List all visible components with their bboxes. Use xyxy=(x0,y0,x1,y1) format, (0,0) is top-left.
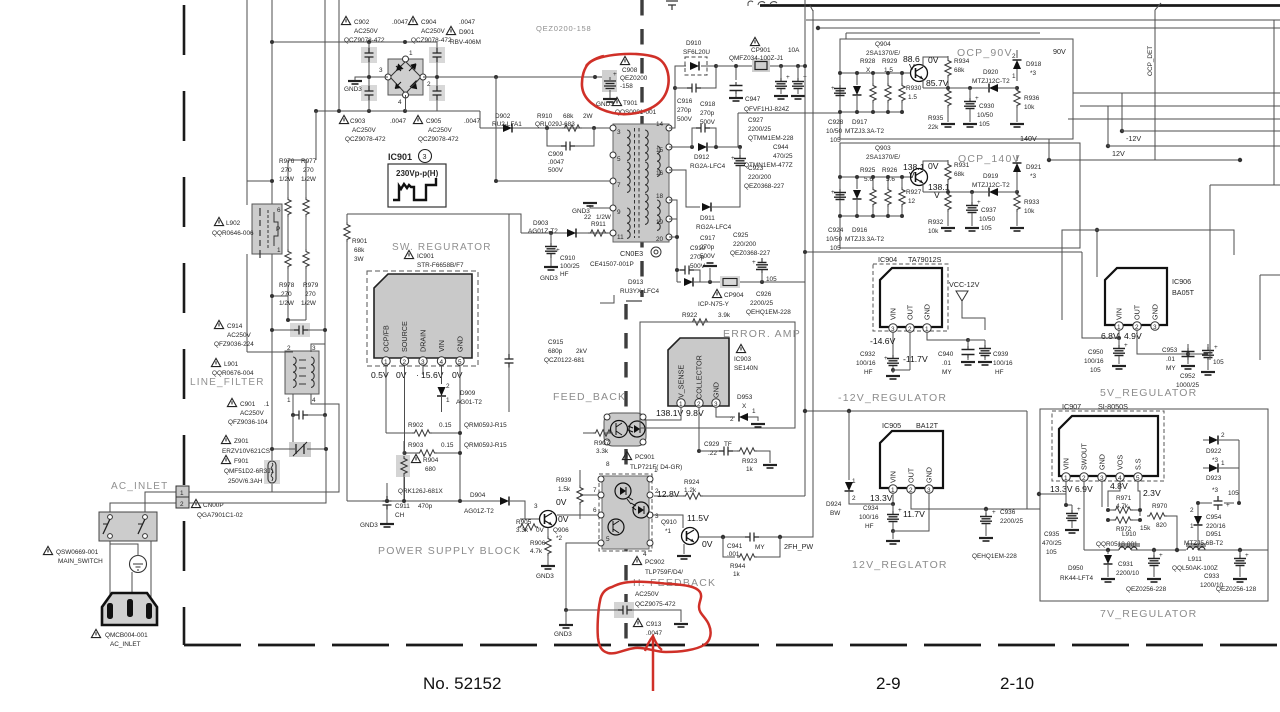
svg-text:C926: C926 xyxy=(756,291,772,298)
svg-text:R927: R927 xyxy=(906,189,922,196)
resistor R970 xyxy=(1140,503,1177,550)
capacitor C940 xyxy=(927,332,975,376)
svg-text:.01: .01 xyxy=(942,360,951,367)
wire pin4 VOS xyxy=(1108,481,1120,507)
svg-text:TA79012S: TA79012S xyxy=(908,255,942,264)
svg-text:14: 14 xyxy=(656,121,664,128)
transistor Q910 xyxy=(652,513,713,549)
diode D909 xyxy=(437,383,482,412)
svg-text:500V: 500V xyxy=(548,167,564,174)
label CN00P QGA7901C1-02 xyxy=(191,499,243,519)
svg-text:820: 820 xyxy=(1156,522,1167,529)
capacitor C925 xyxy=(730,189,771,257)
svg-text:MAIN_SWITCH: MAIN_SWITCH xyxy=(58,558,103,565)
svg-text:SF6L20U: SF6L20U xyxy=(683,49,710,56)
svg-text:R976: R976 xyxy=(279,158,295,165)
svg-text:470/25: 470/25 xyxy=(773,153,793,160)
svg-text:VCC-12V: VCC-12V xyxy=(949,280,980,289)
svg-text:470/25: 470/25 xyxy=(1042,540,1062,547)
resistor R905 xyxy=(516,519,538,534)
diode D950 xyxy=(1060,550,1115,582)
diode D918 xyxy=(1012,50,1042,81)
svg-text:2-9: 2-9 xyxy=(876,674,901,693)
photocoupler PC902 xyxy=(593,461,659,558)
svg-text:D951: D951 xyxy=(1206,531,1222,538)
svg-text:C930: C930 xyxy=(979,103,995,110)
resistor R976 xyxy=(285,160,291,249)
wire elbow below CN0E3 xyxy=(600,295,614,303)
svg-text:D911: D911 xyxy=(700,215,715,222)
wire pin16 to D911 xyxy=(669,170,700,207)
svg-text:2FH_PW: 2FH_PW xyxy=(784,542,813,551)
connector hooks top xyxy=(748,1,777,6)
capacitor electrolytic at CP901 out 2 xyxy=(791,66,807,99)
svg-text:3: 3 xyxy=(714,401,718,408)
wire emitter column xyxy=(902,73,919,130)
svg-text:RBV-406M: RBV-406M xyxy=(450,39,481,46)
svg-text:2: 2 xyxy=(287,345,291,352)
svg-text:100/16: 100/16 xyxy=(859,514,879,521)
svg-text:1: 1 xyxy=(925,326,929,333)
main switch QSW0669-001 xyxy=(99,512,157,541)
svg-text:QQR0646-006: QQR0646-006 xyxy=(212,230,254,237)
bridge rectifier D901 xyxy=(379,50,431,106)
svg-text:R907: R907 xyxy=(594,440,610,447)
wire pin1 down xyxy=(385,365,387,433)
svg-text:2200/10: 2200/10 xyxy=(1116,570,1140,577)
wire y=230 run xyxy=(1097,230,1234,255)
svg-text:R979: R979 xyxy=(303,282,319,289)
capacitor C914 xyxy=(270,323,327,337)
wire bus y=28 xyxy=(846,33,1040,39)
svg-text:2: 2 xyxy=(427,81,431,88)
resistor R936 xyxy=(1010,86,1040,127)
svg-text:C908: C908 xyxy=(622,67,638,74)
svg-text:Q903: Q903 xyxy=(875,145,891,152)
svg-text:5: 5 xyxy=(1136,475,1140,482)
svg-text:QEZ0368-227: QEZ0368-227 xyxy=(730,250,771,257)
inductor L911 xyxy=(1172,544,1218,572)
svg-text:R970: R970 xyxy=(1152,503,1168,510)
capacitor C919 xyxy=(675,245,706,282)
svg-text:STR-F6658B/F7: STR-F6658B/F7 xyxy=(417,262,464,269)
svg-text:IC905: IC905 xyxy=(882,421,901,430)
svg-text:+: + xyxy=(831,189,835,196)
svg-text:3.3k: 3.3k xyxy=(596,448,609,455)
svg-text:D903: D903 xyxy=(533,220,549,227)
svg-text:470p: 470p xyxy=(418,503,433,510)
svg-text:QRM059J-R15: QRM059J-R15 xyxy=(464,442,507,449)
svg-text:270: 270 xyxy=(281,167,292,174)
svg-text:HF: HF xyxy=(560,271,569,278)
label L902 QQR0646-006 xyxy=(212,217,254,237)
svg-text:500V: 500V xyxy=(677,116,693,123)
wire Q903 collector row xyxy=(923,161,968,194)
svg-text:C935: C935 xyxy=(1044,531,1060,538)
svg-text:1.5: 1.5 xyxy=(908,94,917,101)
svg-text:+: + xyxy=(786,74,790,81)
svg-text:9.8V: 9.8V xyxy=(686,408,704,418)
svg-text:2: 2 xyxy=(852,495,856,502)
svg-text:RK44-LFT4: RK44-LFT4 xyxy=(1060,575,1093,582)
label pin voltages 13.3V 6.9V 4.8V 2.3V xyxy=(1050,481,1161,498)
svg-text:AC250V: AC250V xyxy=(635,591,660,598)
svg-text:C913: C913 xyxy=(646,621,662,628)
svg-text:RU2-LFA1: RU2-LFA1 xyxy=(492,121,522,128)
ground GND3 under C913 wire xyxy=(554,610,573,638)
capacitor C915 symbol xyxy=(505,214,514,412)
svg-text:20: 20 xyxy=(656,236,664,243)
capacitor C930 xyxy=(963,86,995,128)
svg-text:68k: 68k xyxy=(954,67,965,74)
svg-text:+: + xyxy=(884,355,888,362)
label pin voltages 0.5V 0V -15.6V 0V xyxy=(371,370,463,380)
wire block border y=113 xyxy=(738,113,840,147)
svg-text:V_SENSE: V_SENSE xyxy=(677,365,686,398)
svg-text:C932: C932 xyxy=(860,351,876,358)
svg-text:1: 1 xyxy=(679,401,683,408)
resistor R902 xyxy=(386,422,507,436)
resistor R933 xyxy=(998,182,1040,231)
rail x=806 top xyxy=(805,11,807,66)
svg-text:IC901: IC901 xyxy=(388,152,412,162)
svg-text:1: 1 xyxy=(180,490,184,497)
svg-text:+: + xyxy=(898,507,902,514)
svg-text:100/16: 100/16 xyxy=(1084,358,1104,365)
svg-text:2: 2 xyxy=(909,487,913,494)
label -14.6V xyxy=(870,332,896,354)
svg-text:MY: MY xyxy=(1166,365,1176,372)
svg-text:C934: C934 xyxy=(863,505,879,512)
label CP904 ICP-N75-Y xyxy=(698,289,744,308)
AC inlet plug QMCB004-001 xyxy=(102,593,157,625)
resistor R930 xyxy=(899,73,922,112)
zener D920 xyxy=(968,69,1017,93)
svg-text:0.15: 0.15 xyxy=(441,442,454,449)
svg-text:*2: *2 xyxy=(556,535,562,542)
svg-text:L902: L902 xyxy=(226,220,241,227)
svg-text:4: 4 xyxy=(643,551,647,558)
svg-text:AC250V: AC250V xyxy=(352,127,377,134)
svg-text:4.8V: 4.8V xyxy=(1110,481,1128,491)
diode D913 label xyxy=(620,279,660,295)
label C902 .0047 AC250V QCZ9078-472 xyxy=(341,16,408,44)
svg-text:D953: D953 xyxy=(737,394,753,401)
svg-text:RG2A-LFC4: RG2A-LFC4 xyxy=(690,163,726,170)
svg-text:C910: C910 xyxy=(560,255,576,262)
svg-text:138.1V: 138.1V xyxy=(656,408,684,418)
svg-text:270p: 270p xyxy=(700,110,715,117)
svg-text:GND: GND xyxy=(925,467,934,483)
svg-text:2: 2 xyxy=(180,501,184,508)
rail x=805 xyxy=(803,0,807,496)
resistor R910 xyxy=(535,113,594,131)
choke L902 xyxy=(252,204,282,258)
resistor R904 xyxy=(396,441,439,501)
svg-text:1: 1 xyxy=(446,397,450,404)
svg-text:R928: R928 xyxy=(860,58,876,65)
svg-text:Q906: Q906 xyxy=(553,527,569,534)
svg-text:VIN: VIN xyxy=(889,308,898,320)
svg-text:*3: *3 xyxy=(1030,70,1036,77)
svg-text:1: 1 xyxy=(852,478,856,485)
svg-text:3: 3 xyxy=(534,503,538,510)
svg-text:4: 4 xyxy=(440,359,444,366)
svg-text:AC250V: AC250V xyxy=(227,332,252,339)
svg-text:GND: GND xyxy=(923,304,932,320)
label D901 RBV-406M xyxy=(446,26,481,46)
wire OCP box bottom bus xyxy=(803,250,1119,338)
svg-text:QTMN1EM-477Z: QTMN1EM-477Z xyxy=(744,162,793,169)
svg-text:10k: 10k xyxy=(928,228,939,235)
connector CN0E3 xyxy=(590,247,661,268)
svg-text:270p: 270p xyxy=(677,107,692,114)
label IC903 SE140N xyxy=(734,344,758,372)
svg-text:1/2W: 1/2W xyxy=(279,176,295,183)
svg-text:S.S: S.S xyxy=(1134,458,1143,470)
svg-text:C918: C918 xyxy=(700,101,716,108)
wire error amp box xyxy=(640,322,795,428)
svg-text:7: 7 xyxy=(593,487,597,494)
svg-text:D909: D909 xyxy=(460,390,476,397)
capacitor C910 xyxy=(540,233,580,282)
resistor R901 xyxy=(344,214,368,501)
annotation red circle top (C908) xyxy=(582,54,669,114)
svg-text:4: 4 xyxy=(398,99,402,106)
svg-text:6: 6 xyxy=(593,507,597,514)
diode D924 xyxy=(826,411,893,517)
svg-text:C931: C931 xyxy=(1118,561,1134,568)
capacitor C913 xyxy=(564,602,688,627)
svg-text:220/200: 220/200 xyxy=(748,174,772,181)
zener D919 xyxy=(968,173,1017,197)
svg-text:2200/25: 2200/25 xyxy=(748,126,772,133)
svg-text:MTZJ3.3A-T2: MTZJ3.3A-T2 xyxy=(845,236,885,243)
wire OCP90 top row xyxy=(838,71,910,75)
svg-text:D916: D916 xyxy=(852,227,868,234)
svg-text:3: 3 xyxy=(655,513,659,520)
svg-text:C954: C954 xyxy=(1206,514,1222,521)
svg-text:2SA1370/E/: 2SA1370/E/ xyxy=(866,50,900,57)
fuse CP901 xyxy=(716,59,805,72)
wire Q910 base/emitter xyxy=(677,544,691,559)
svg-text:CH: CH xyxy=(395,512,405,519)
svg-text:D918: D918 xyxy=(1026,61,1042,68)
svg-text:R971: R971 xyxy=(1116,495,1132,502)
svg-text:105: 105 xyxy=(1046,549,1057,556)
capacitor C937 xyxy=(965,190,997,232)
svg-text:11: 11 xyxy=(617,234,624,241)
svg-text:OUT: OUT xyxy=(1133,304,1142,320)
svg-text:7: 7 xyxy=(617,182,621,189)
svg-text:D913: D913 xyxy=(628,279,644,286)
wire y=160 bus xyxy=(1047,139,1242,185)
svg-text:D902: D902 xyxy=(495,113,511,120)
svg-text:QQR0676-004: QQR0676-004 xyxy=(212,370,254,377)
svg-text:CN0E3: CN0E3 xyxy=(620,249,643,258)
svg-text:QQL50AK-100Z: QQL50AK-100Z xyxy=(1172,565,1218,572)
svg-text:*3: *3 xyxy=(1030,173,1036,180)
svg-text:VIN: VIN xyxy=(1062,458,1071,470)
svg-text:MTZJ12C-T2: MTZJ12C-T2 xyxy=(972,78,1010,85)
resistor R978 xyxy=(285,249,291,320)
svg-text:QEHQ1EM-228: QEHQ1EM-228 xyxy=(746,309,791,316)
fuse CP904 xyxy=(720,276,805,288)
capacitor C952 xyxy=(1176,344,1224,389)
svg-text:+: + xyxy=(977,199,981,206)
svg-text:QSW0669-001: QSW0669-001 xyxy=(56,549,99,556)
svg-text:R924: R924 xyxy=(684,479,700,486)
svg-text:2: 2 xyxy=(446,383,450,390)
svg-text:0V: 0V xyxy=(702,539,713,549)
svg-text:QMFZ034-100Z-J1: QMFZ034-100Z-J1 xyxy=(729,55,784,62)
svg-text:POWER SUPPLY BLOCK: POWER SUPPLY BLOCK xyxy=(378,545,521,557)
svg-text:+: + xyxy=(1214,344,1218,351)
svg-text:12V: 12V xyxy=(1112,149,1125,158)
svg-text:15k: 15k xyxy=(1140,525,1151,532)
svg-text:10k: 10k xyxy=(1024,208,1035,215)
svg-text:.0047: .0047 xyxy=(392,19,408,26)
svg-text:QFVF1HJ-824Z: QFVF1HJ-824Z xyxy=(744,106,789,113)
wire switch to CN00P xyxy=(110,492,176,512)
resistor R903 xyxy=(403,442,508,456)
label IC901 STR-F6658B/F7 xyxy=(404,250,464,269)
IC901 switching regulator block xyxy=(367,271,478,366)
label QMCB004-001 AC_INLET xyxy=(91,629,148,648)
wire top bus y=42 xyxy=(270,40,437,44)
svg-text:5: 5 xyxy=(458,359,462,366)
svg-text:GND3: GND3 xyxy=(360,522,378,529)
line filter L901 xyxy=(285,345,319,404)
svg-text:500V: 500V xyxy=(700,119,716,126)
capacitor C923 xyxy=(731,147,785,190)
svg-text:2kV: 2kV xyxy=(576,348,588,355)
svg-text:+: + xyxy=(1124,342,1128,349)
svg-text:270: 270 xyxy=(305,291,316,298)
wire pin3 GND down xyxy=(1102,481,1108,507)
svg-text:F901: F901 xyxy=(234,458,249,465)
svg-text:C904: C904 xyxy=(421,19,437,26)
label C908 QEZ0200-158 xyxy=(620,56,648,90)
svg-text:10/50: 10/50 xyxy=(826,236,842,243)
svg-text:+: + xyxy=(1077,506,1081,513)
svg-text:2.3V: 2.3V xyxy=(1143,488,1161,498)
svg-text:1: 1 xyxy=(1064,475,1068,482)
wire pin15 row xyxy=(669,145,694,149)
svg-text:2: 2 xyxy=(1135,324,1139,331)
svg-text:3: 3 xyxy=(379,67,383,74)
svg-text:OUT: OUT xyxy=(907,467,916,483)
diode D923 xyxy=(1203,460,1239,494)
svg-text:VIN: VIN xyxy=(1115,308,1124,320)
svg-text:IC907: IC907 xyxy=(1062,402,1081,411)
label C914 AC250V QFZ9036-224 xyxy=(214,320,254,348)
wire out bus y=509 xyxy=(911,506,1040,511)
svg-text:-158: -158 xyxy=(620,83,633,90)
svg-text:ERZV10V621CS: ERZV10V621CS xyxy=(222,448,270,455)
wire y=119 bus xyxy=(1068,118,1280,120)
svg-text:QEZ0256-228: QEZ0256-228 xyxy=(1126,586,1167,593)
svg-text:MTZJ3.3A-T2: MTZJ3.3A-T2 xyxy=(845,128,885,135)
svg-text:230Vp-p(H): 230Vp-p(H) xyxy=(396,169,439,178)
wire Q906 collector to PC902 pins xyxy=(557,495,601,610)
svg-text:1: 1 xyxy=(1221,460,1225,467)
capacitor C905 xyxy=(429,77,445,111)
resistor R906 xyxy=(530,528,555,580)
wire CN00P pin1 to fuse column xyxy=(189,491,272,493)
svg-text:0V: 0V xyxy=(928,161,939,171)
svg-text:10k: 10k xyxy=(1024,104,1035,111)
svg-text:1/2W: 1/2W xyxy=(301,300,317,307)
svg-text:.0047: .0047 xyxy=(464,118,480,125)
label C927 2200/25 QTMM1EM-228 C944 xyxy=(744,117,794,169)
resistor R934 xyxy=(945,56,970,88)
label CP901 10A QMFZ034-100Z-J1 xyxy=(729,37,800,62)
svg-text:BA12T: BA12T xyxy=(916,421,939,430)
svg-text:TF: TF xyxy=(724,441,732,448)
capacitor C916 xyxy=(675,64,718,123)
svg-text:V: V xyxy=(909,170,915,180)
svg-text:GND3: GND3 xyxy=(540,275,558,282)
svg-text:16: 16 xyxy=(656,170,664,177)
svg-text:3W: 3W xyxy=(354,256,365,263)
svg-text:0V: 0V xyxy=(452,370,463,380)
wire 90V output xyxy=(1073,92,1280,94)
resistor R935 xyxy=(928,88,955,131)
svg-text:11.7V: 11.7V xyxy=(903,509,925,519)
svg-text:R932: R932 xyxy=(928,219,944,226)
svg-text:QCZ9078-472: QCZ9078-472 xyxy=(418,136,459,143)
svg-text:R978: R978 xyxy=(279,282,295,289)
capacitor C932 xyxy=(856,351,900,379)
svg-text:5: 5 xyxy=(606,536,610,543)
svg-text:R905: R905 xyxy=(516,519,532,526)
label PC902 TLP759F/D4/ xyxy=(632,556,683,576)
svg-text:1/2W: 1/2W xyxy=(301,176,317,183)
label C913 .0047 xyxy=(633,618,662,637)
svg-text:1: 1 xyxy=(1012,73,1016,80)
svg-text:R933: R933 xyxy=(1024,199,1040,206)
wire pin2 down xyxy=(404,365,406,501)
capacitor C939 xyxy=(968,340,1013,376)
resistor R926 xyxy=(882,167,898,216)
svg-text:VIN: VIN xyxy=(437,340,446,352)
svg-text:C909: C909 xyxy=(548,151,564,158)
svg-text:AC_INLET: AC_INLET xyxy=(110,641,141,648)
wire pin5 S.S xyxy=(1138,481,1140,516)
svg-text:QMCB004-001: QMCB004-001 xyxy=(105,632,148,639)
capacitor C909 xyxy=(547,128,594,174)
svg-text:D919: D919 xyxy=(983,173,999,180)
wire x=1039 rail xyxy=(1038,411,1040,494)
svg-text:C950: C950 xyxy=(1088,349,1104,356)
svg-text:3: 3 xyxy=(1153,324,1157,331)
svg-text:.0047: .0047 xyxy=(548,159,564,166)
svg-text:C941: C941 xyxy=(727,543,743,550)
capacitor C926 xyxy=(746,258,791,316)
diode D912 xyxy=(690,143,742,171)
wire top heavy bus xyxy=(760,4,1280,7)
svg-text:5V_REGULATOR: 5V_REGULATOR xyxy=(1100,387,1197,399)
svg-text:D921: D921 xyxy=(1026,164,1042,171)
resistor R977 xyxy=(303,160,309,249)
svg-text:220/16: 220/16 xyxy=(1206,523,1226,530)
wire output bus y=550 xyxy=(1084,548,1268,552)
svg-text:680p: 680p xyxy=(548,348,563,355)
svg-text:D923: D923 xyxy=(1206,475,1222,482)
photocoupler PC901 xyxy=(604,413,646,446)
wire bus y=501 xyxy=(347,499,460,503)
